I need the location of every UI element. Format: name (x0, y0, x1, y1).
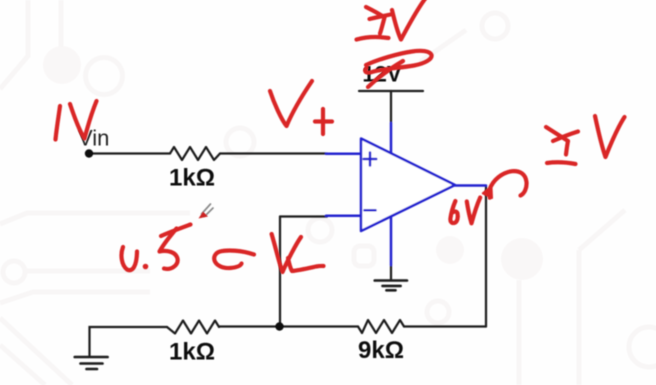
svg-text:9kΩ: 9kΩ (358, 337, 404, 364)
svg-text:1kΩ: 1kΩ (169, 339, 215, 366)
svg-text:1kΩ: 1kΩ (169, 165, 215, 192)
